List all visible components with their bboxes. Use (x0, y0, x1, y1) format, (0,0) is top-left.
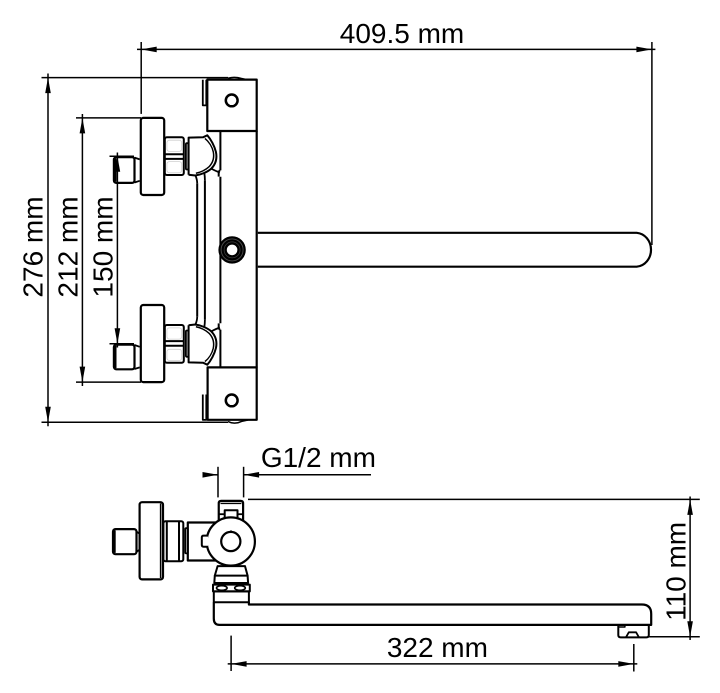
bottom view: cap notch (225, 510, 238, 518)
front view: bottom inlet washer (186, 331, 188, 357)
svg-text:G1/2 mm: G1/2 mm (261, 442, 376, 473)
front view: left body tube lines (197, 180, 205, 320)
bottom view: 322 mm dimension (228, 636, 638, 672)
dimension 212 mm (76, 114, 141, 386)
dimension 409.5 mm (137, 42, 655, 245)
bottom view: neck band B (214, 576, 248, 583)
bottom view: inner circle (221, 532, 240, 551)
bottom view: escutcheon (140, 502, 163, 579)
front view: bottom inlet hex nut (165, 325, 184, 363)
dimension 276 mm (42, 74, 229, 427)
bottom view: 110 mm dimension (248, 497, 700, 641)
bottom view: neck band A (215, 566, 248, 576)
bottom view: body block (188, 523, 218, 561)
front view: top inlet hex nut (165, 137, 184, 175)
front view: bottom plate tab (203, 395, 207, 420)
front view: top plate tab (203, 80, 207, 106)
front view: body right edge (256, 131, 258, 367)
front view: top inlet washer (186, 143, 188, 169)
front view: top inlet escutcheon (141, 118, 164, 195)
front view: bottom body bell (189, 317, 220, 365)
front view: bottom inlet escutcheon (141, 305, 164, 382)
svg-text:212 mm: 212 mm (52, 196, 83, 297)
front view: bottom mounting plate (208, 367, 257, 423)
bottom view: spout bar (214, 602, 651, 625)
front view: spout (258, 233, 651, 267)
front view: bottom plate hole (226, 395, 238, 407)
bottom view: G1/2 dimension (203, 467, 372, 498)
svg-text:322 mm: 322 mm (387, 632, 488, 663)
front view: body rail line (219, 132, 221, 368)
bottom view: screw flange (213, 585, 250, 592)
bottom view: hex nut (163, 521, 183, 561)
front view: top body bell (189, 135, 220, 183)
bottom view: top cap (219, 501, 243, 520)
front view: bottom eccentric square fitting (114, 345, 140, 370)
bottom view: aerator housing (618, 625, 649, 638)
front view: top eccentric square fitting (114, 157, 140, 183)
bottom view: valve body circle (207, 517, 255, 565)
bottom view: aerator nozzle (626, 632, 639, 637)
bottom view: eccentric square fitting (113, 529, 140, 554)
svg-text:409.5 mm: 409.5 mm (340, 18, 465, 49)
bottom view: inner circle tick (230, 530, 232, 533)
bottom view: collar band (214, 591, 249, 602)
front view: diverter button (221, 239, 243, 261)
svg-text:150 mm: 150 mm (87, 196, 118, 297)
bottom view: key tab (202, 536, 208, 547)
svg-text:276 mm: 276 mm (18, 196, 49, 297)
svg-text:110 mm: 110 mm (661, 522, 692, 621)
front view: top plate hole (226, 95, 238, 107)
front view: top mounting plate (207, 77, 256, 131)
bottom view: washer (185, 528, 188, 553)
dimension 150 mm (110, 153, 135, 348)
